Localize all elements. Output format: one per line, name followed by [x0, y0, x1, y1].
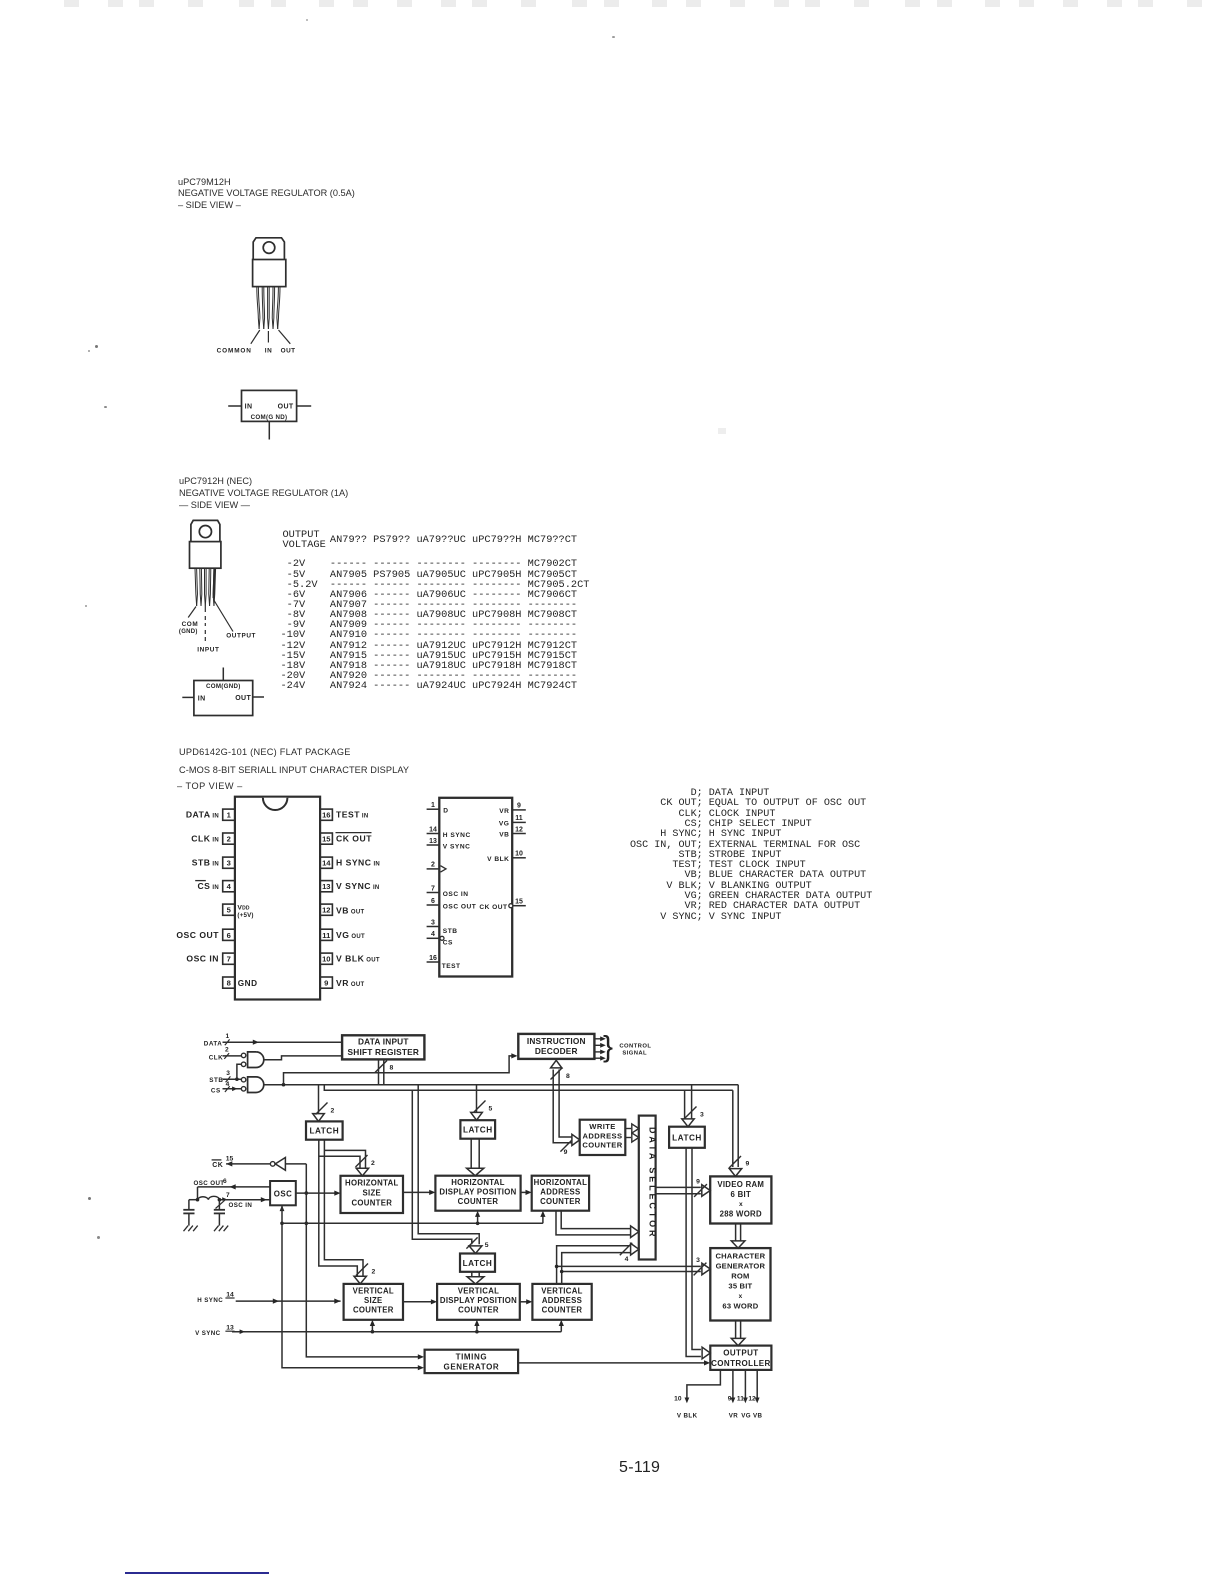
svg-text:OSC OUT: OSC OUT [443, 903, 477, 910]
svg-text:10: 10 [674, 1396, 682, 1403]
svg-text:VG: VG [741, 1412, 751, 1419]
svg-text:(+5V): (+5V) [237, 912, 253, 919]
svg-text:HORIZONTAL: HORIZONTAL [534, 1178, 588, 1187]
svg-text:COM(GND): COM(GND) [206, 683, 241, 690]
svg-text:5: 5 [227, 906, 232, 915]
svg-text:LATCH: LATCH [672, 1133, 702, 1142]
svg-text:STB: STB [209, 1077, 223, 1084]
svg-text:2: 2 [227, 835, 231, 844]
svg-text:GENERATOR: GENERATOR [716, 1261, 766, 1270]
svg-text:WRITE: WRITE [589, 1122, 615, 1131]
svg-text:2: 2 [431, 862, 435, 869]
svg-text:ROM: ROM [731, 1271, 749, 1280]
svg-text:TEST: TEST [442, 963, 461, 970]
svg-text:5: 5 [489, 1106, 493, 1113]
svg-text:OUT: OUT [235, 695, 251, 702]
svg-text:12: 12 [748, 1396, 756, 1403]
svg-text:ADDRESS: ADDRESS [583, 1131, 623, 1140]
svg-text:CONTROL: CONTROL [619, 1044, 651, 1050]
svg-text:DATA SELECTOR: DATA SELECTOR [647, 1127, 657, 1239]
svg-text:HORIZONTAL: HORIZONTAL [451, 1178, 505, 1187]
svg-text:INPUT: INPUT [197, 646, 219, 653]
svg-text:SIGNAL: SIGNAL [622, 1051, 647, 1057]
svg-text:COUNTER: COUNTER [351, 1198, 392, 1207]
svg-text:HORIZONTAL: HORIZONTAL [345, 1178, 399, 1187]
svg-text:11: 11 [737, 1396, 744, 1403]
svg-text:OUT: OUT [281, 348, 296, 355]
svg-text:COUNTER: COUNTER [582, 1141, 622, 1150]
svg-text:V SYNC: V SYNC [195, 1330, 221, 1337]
svg-text:VIDEO RAM: VIDEO RAM [717, 1180, 764, 1189]
svg-text:TEST IN: TEST IN [336, 810, 369, 820]
svg-text:9: 9 [696, 1179, 700, 1186]
svg-text:13: 13 [322, 882, 330, 891]
svg-text:63 WORD: 63 WORD [722, 1301, 758, 1310]
svg-text:COUNTER: COUNTER [540, 1197, 581, 1206]
svg-text:14: 14 [429, 826, 437, 833]
svg-text:4: 4 [625, 1256, 629, 1263]
svg-text:3: 3 [700, 1112, 704, 1119]
svg-text:STB IN: STB IN [192, 858, 219, 868]
svg-text:SHIFT REGISTER: SHIFT REGISTER [348, 1047, 419, 1057]
svg-text:16: 16 [429, 955, 437, 962]
svg-text:INSTRUCTION: INSTRUCTION [527, 1036, 586, 1046]
svg-text:DECODER: DECODER [535, 1046, 578, 1056]
svg-text:15: 15 [322, 835, 331, 844]
svg-text:9: 9 [324, 979, 328, 988]
svg-text:5: 5 [485, 1242, 489, 1249]
svg-text:2: 2 [371, 1160, 375, 1167]
svg-text:VR: VR [729, 1412, 739, 1419]
svg-text:VERTICAL: VERTICAL [541, 1286, 582, 1295]
svg-text:V SYNC IN: V SYNC IN [336, 881, 380, 891]
svg-text:COUNTER: COUNTER [353, 1306, 394, 1315]
svg-text:CLK IN: CLK IN [191, 834, 219, 844]
svg-text:CLK: CLK [209, 1055, 223, 1062]
svg-text:ADDRESS: ADDRESS [540, 1188, 580, 1197]
svg-text:COUNTER: COUNTER [458, 1197, 499, 1206]
svg-text:6: 6 [223, 1178, 227, 1185]
svg-text:12: 12 [515, 826, 523, 833]
svg-text:CK OUT: CK OUT [479, 904, 507, 911]
svg-text:H SYNC: H SYNC [443, 832, 471, 839]
svg-text:SIZE: SIZE [363, 1188, 382, 1197]
svg-text:2: 2 [331, 1108, 335, 1115]
svg-text:10: 10 [322, 955, 330, 964]
svg-text:CHARACTER: CHARACTER [715, 1251, 765, 1260]
svg-text:OSC OUT: OSC OUT [194, 1180, 225, 1187]
svg-text:VERTICAL: VERTICAL [353, 1286, 394, 1295]
svg-text:H SYNC IN: H SYNC IN [336, 858, 380, 868]
svg-text:VERTICAL: VERTICAL [458, 1286, 499, 1295]
svg-text:OSC OUT: OSC OUT [176, 930, 219, 940]
svg-text:DATA: DATA [204, 1040, 223, 1047]
svg-text:VB OUT: VB OUT [336, 906, 365, 916]
svg-text:COM(G ND): COM(G ND) [251, 414, 288, 421]
svg-text:VR OUT: VR OUT [336, 978, 365, 988]
svg-text:CS: CS [443, 940, 453, 947]
svg-text:OUTPUT: OUTPUT [723, 1348, 758, 1357]
svg-text:6: 6 [431, 898, 435, 905]
svg-text:1: 1 [227, 811, 232, 820]
svg-text:15: 15 [515, 899, 523, 906]
svg-text:288 WORD: 288 WORD [720, 1209, 762, 1218]
svg-text:SIZE: SIZE [364, 1296, 383, 1305]
svg-text:V SYNC: V SYNC [443, 843, 471, 850]
svg-text:7: 7 [227, 955, 231, 964]
svg-text:VG OUT: VG OUT [336, 930, 365, 940]
svg-text:14: 14 [322, 859, 331, 868]
svg-text:VR: VR [499, 808, 509, 815]
svg-text:IN: IN [198, 695, 206, 702]
svg-text:9: 9 [517, 803, 521, 810]
svg-text:OUTPUT: OUTPUT [226, 633, 256, 640]
svg-text:VDD: VDD [237, 905, 250, 912]
svg-text:DISPLAY POSITION: DISPLAY POSITION [440, 1296, 517, 1305]
svg-text:STB: STB [443, 928, 458, 935]
svg-text:VB: VB [499, 832, 509, 839]
svg-text:4: 4 [431, 931, 435, 938]
svg-text:DATA IN: DATA IN [186, 810, 219, 820]
svg-text:COUNTER: COUNTER [458, 1306, 499, 1315]
svg-text:12: 12 [322, 906, 330, 915]
svg-text:IN: IN [245, 404, 253, 411]
svg-text:VB: VB [753, 1412, 763, 1419]
svg-text:H SYNC: H SYNC [197, 1297, 223, 1304]
svg-text:VG: VG [499, 821, 510, 828]
svg-text:OUT: OUT [278, 404, 294, 411]
svg-text:2: 2 [225, 1047, 229, 1054]
svg-text:15: 15 [226, 1156, 234, 1163]
svg-text:LATCH: LATCH [309, 1127, 339, 1136]
svg-text:}: } [603, 1031, 613, 1064]
svg-text:V BLK OUT: V BLK OUT [336, 954, 380, 964]
svg-text:CS IN: CS IN [197, 881, 219, 891]
svg-text:GENERATOR: GENERATOR [444, 1362, 500, 1371]
svg-text:6 BIT: 6 BIT [731, 1190, 752, 1199]
svg-text:CS: CS [211, 1087, 221, 1094]
svg-text:V BLK: V BLK [677, 1412, 698, 1419]
svg-text:COMMON: COMMON [217, 348, 252, 355]
svg-text:2: 2 [372, 1269, 376, 1276]
svg-text:9: 9 [728, 1396, 732, 1403]
svg-text:8: 8 [390, 1065, 394, 1072]
svg-text:11: 11 [515, 815, 523, 822]
svg-text:3: 3 [227, 859, 231, 868]
svg-text:8: 8 [227, 979, 231, 988]
svg-text:CK OUT: CK OUT [336, 834, 372, 844]
svg-text:DATA INPUT: DATA INPUT [358, 1037, 409, 1047]
svg-text:16: 16 [322, 811, 330, 820]
svg-text:1: 1 [225, 1033, 229, 1040]
svg-text:10: 10 [515, 851, 523, 858]
svg-text:11: 11 [322, 931, 331, 940]
svg-text:LATCH: LATCH [463, 1259, 493, 1268]
svg-text:COM: COM [182, 621, 199, 628]
svg-text:13: 13 [429, 838, 437, 845]
svg-text:3: 3 [431, 919, 435, 926]
svg-text:x: x [739, 1201, 743, 1208]
svg-text:1: 1 [431, 802, 435, 809]
svg-text:9: 9 [564, 1149, 568, 1156]
svg-text:3: 3 [696, 1257, 700, 1264]
svg-text:6: 6 [227, 931, 231, 940]
svg-text:DISPLAY POSITION: DISPLAY POSITION [439, 1188, 516, 1197]
svg-text:7: 7 [431, 885, 435, 892]
svg-text:OSC IN: OSC IN [229, 1202, 253, 1209]
svg-text:4: 4 [227, 882, 232, 891]
svg-text:(GND): (GND) [179, 629, 198, 635]
svg-text:7: 7 [226, 1192, 230, 1199]
svg-text:x: x [739, 1293, 743, 1300]
svg-text:OSC: OSC [274, 1189, 293, 1198]
svg-text:TIMING: TIMING [456, 1352, 488, 1361]
svg-text:IN: IN [265, 348, 272, 355]
svg-text:GND: GND [238, 979, 258, 988]
svg-text:V BLK: V BLK [487, 856, 509, 863]
svg-text:9: 9 [746, 1161, 750, 1168]
svg-text:CK: CK [212, 1162, 223, 1169]
svg-text:LATCH: LATCH [463, 1126, 493, 1135]
svg-text:OSC IN: OSC IN [443, 891, 469, 898]
svg-text:OSC IN: OSC IN [186, 954, 219, 964]
svg-text:CONTROLLER: CONTROLLER [711, 1359, 771, 1368]
svg-text:COUNTER: COUNTER [542, 1306, 583, 1315]
svg-text:3: 3 [226, 1070, 230, 1077]
svg-text:8: 8 [566, 1073, 570, 1080]
svg-text:ADDRESS: ADDRESS [542, 1296, 582, 1305]
svg-text:D: D [443, 807, 448, 814]
svg-text:35 BIT: 35 BIT [728, 1281, 752, 1290]
